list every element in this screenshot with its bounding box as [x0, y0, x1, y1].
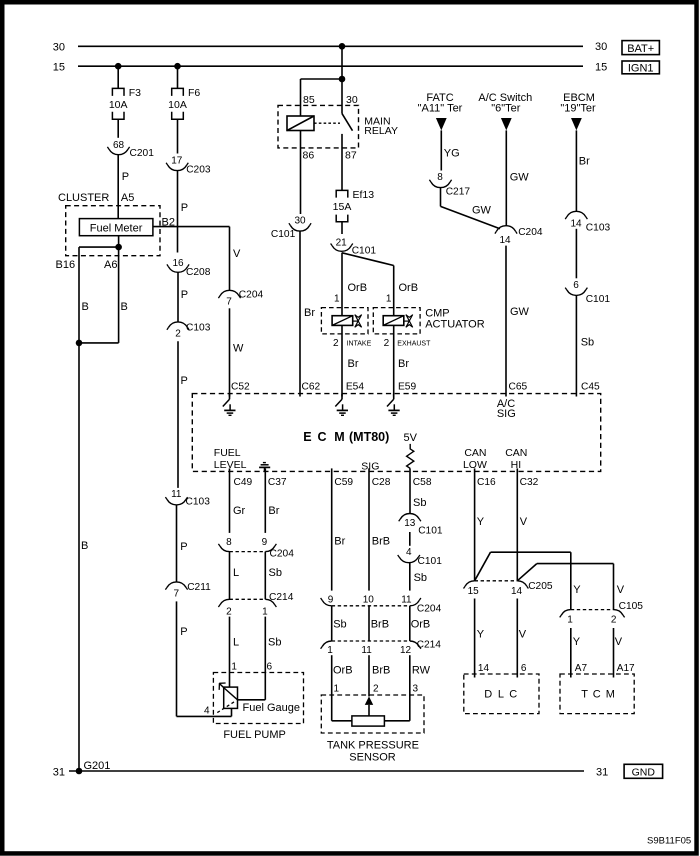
svg-text:CAN: CAN [464, 447, 486, 459]
svg-text:CLUSTER: CLUSTER [58, 192, 109, 204]
svg-text:D L C: D L C [484, 689, 518, 701]
svg-text:C214: C214 [269, 592, 294, 603]
svg-text:8: 8 [226, 537, 232, 548]
svg-text:30: 30 [294, 215, 306, 226]
svg-text:15: 15 [53, 62, 65, 74]
svg-text:GW: GW [510, 171, 530, 183]
svg-text:2: 2 [226, 606, 232, 617]
svg-text:(MT80): (MT80) [349, 430, 389, 444]
svg-text:C205: C205 [528, 581, 553, 592]
svg-text:"6"Ter: "6"Ter [491, 103, 521, 115]
svg-text:C105: C105 [619, 601, 644, 612]
svg-text:2: 2 [611, 615, 617, 626]
svg-text:9: 9 [328, 595, 334, 606]
svg-text:SENSOR: SENSOR [349, 751, 396, 763]
svg-text:7: 7 [174, 589, 180, 600]
svg-text:E54: E54 [346, 382, 364, 393]
svg-text:Br: Br [398, 358, 409, 370]
svg-text:F3: F3 [129, 87, 141, 99]
svg-text:15: 15 [595, 61, 607, 73]
svg-text:Sb: Sb [581, 337, 594, 349]
svg-text:15: 15 [468, 586, 480, 597]
svg-text:86: 86 [303, 150, 315, 162]
svg-text:P: P [181, 202, 188, 214]
svg-text:Br: Br [304, 307, 315, 319]
svg-text:W: W [233, 343, 244, 355]
svg-text:OrB: OrB [399, 282, 419, 294]
svg-text:V: V [520, 516, 528, 528]
svg-text:P: P [181, 289, 188, 301]
svg-text:P: P [181, 375, 188, 387]
svg-text:Y: Y [573, 584, 581, 596]
svg-text:INTAKE: INTAKE [347, 340, 372, 347]
svg-text:EXHAUST: EXHAUST [397, 340, 431, 347]
svg-text:9: 9 [262, 537, 268, 548]
svg-text:C204: C204 [270, 549, 295, 560]
svg-text:6: 6 [521, 663, 527, 674]
svg-text:16: 16 [172, 258, 184, 269]
svg-text:C62: C62 [302, 382, 321, 393]
svg-text:E59: E59 [398, 382, 416, 393]
svg-text:Br: Br [334, 536, 345, 548]
svg-text:11: 11 [171, 489, 182, 500]
svg-text:21: 21 [336, 237, 348, 248]
svg-text:SIG: SIG [497, 408, 516, 420]
svg-text:CAN: CAN [505, 447, 527, 459]
svg-text:C: C [318, 430, 327, 444]
svg-text:14: 14 [511, 586, 523, 597]
svg-text:10A: 10A [168, 99, 187, 111]
svg-text:6: 6 [573, 280, 579, 291]
svg-text:31: 31 [53, 766, 65, 778]
svg-text:1: 1 [567, 615, 573, 626]
svg-text:Sb: Sb [414, 572, 427, 584]
svg-text:30: 30 [595, 41, 607, 53]
svg-text:C101: C101 [352, 246, 377, 257]
svg-text:Fuel Gauge: Fuel Gauge [243, 702, 300, 714]
svg-text:4: 4 [406, 547, 412, 558]
svg-text:Sb: Sb [413, 497, 426, 509]
svg-text:30: 30 [53, 42, 65, 54]
svg-text:Y: Y [477, 629, 485, 641]
svg-text:6: 6 [267, 662, 273, 673]
svg-text:FUEL: FUEL [214, 447, 241, 459]
svg-text:GW: GW [510, 306, 530, 318]
svg-text:68: 68 [113, 140, 125, 151]
svg-text:C208: C208 [186, 267, 211, 278]
svg-text:2: 2 [384, 338, 390, 349]
svg-text:C204: C204 [518, 227, 543, 238]
svg-text:17: 17 [171, 156, 183, 167]
svg-text:RELAY: RELAY [364, 125, 398, 137]
svg-text:14: 14 [499, 235, 511, 246]
svg-text:2: 2 [175, 329, 181, 340]
svg-text:C32: C32 [520, 477, 539, 488]
svg-text:L: L [233, 637, 239, 649]
svg-text:C201: C201 [130, 148, 155, 159]
svg-text:GW: GW [472, 205, 492, 217]
svg-text:C49: C49 [234, 477, 253, 488]
svg-text:FUEL PUMP: FUEL PUMP [223, 729, 286, 741]
svg-text:B: B [81, 540, 88, 552]
svg-text:BrB: BrB [372, 536, 390, 548]
svg-text:8: 8 [437, 172, 443, 183]
svg-text:YG: YG [444, 148, 460, 160]
svg-text:A7: A7 [575, 663, 588, 674]
svg-text:Fuel Meter: Fuel Meter [90, 223, 143, 235]
svg-text:T C M: T C M [581, 689, 616, 701]
svg-text:7: 7 [226, 297, 232, 308]
svg-text:Y: Y [477, 516, 485, 528]
svg-text:C45: C45 [581, 382, 600, 393]
svg-text:4: 4 [204, 706, 210, 717]
svg-text:Br: Br [348, 358, 359, 370]
svg-text:A5: A5 [121, 192, 134, 204]
svg-text:L: L [233, 567, 239, 579]
svg-text:P: P [180, 626, 187, 638]
svg-text:Sb: Sb [269, 567, 282, 579]
svg-text:B: B [121, 301, 128, 313]
svg-text:C101: C101 [586, 294, 611, 305]
svg-text:C103: C103 [186, 496, 211, 507]
svg-text:C65: C65 [509, 382, 528, 393]
svg-text:Br: Br [579, 156, 590, 168]
svg-text:12: 12 [400, 645, 412, 656]
svg-text:SIG: SIG [361, 461, 379, 473]
svg-text:11: 11 [361, 645, 372, 656]
svg-text:BrB: BrB [371, 619, 389, 631]
svg-text:1: 1 [231, 662, 237, 673]
svg-text:5V: 5V [404, 432, 418, 444]
svg-text:OrB: OrB [333, 665, 353, 677]
svg-text:Br: Br [268, 505, 279, 517]
svg-text:S9B11F05: S9B11F05 [647, 836, 691, 847]
svg-text:Y: Y [573, 636, 581, 648]
svg-text:G201: G201 [84, 760, 111, 772]
svg-text:V: V [519, 629, 527, 641]
svg-text:2: 2 [373, 684, 379, 695]
svg-text:E: E [303, 430, 311, 444]
svg-text:10: 10 [363, 595, 375, 606]
svg-text:C101: C101 [418, 526, 443, 537]
svg-text:RW: RW [412, 665, 431, 677]
svg-text:C203: C203 [186, 164, 211, 175]
svg-text:M: M [334, 430, 344, 444]
svg-text:C16: C16 [477, 477, 496, 488]
svg-text:B: B [82, 301, 89, 313]
svg-text:11: 11 [401, 595, 412, 606]
svg-text:IGN1: IGN1 [628, 63, 654, 75]
svg-text:GND: GND [632, 766, 656, 778]
svg-text:V: V [615, 636, 623, 648]
svg-text:C103: C103 [586, 223, 611, 234]
svg-text:1: 1 [334, 294, 340, 305]
svg-text:F6: F6 [188, 87, 200, 99]
svg-text:ACTUATOR: ACTUATOR [425, 318, 485, 330]
svg-text:1: 1 [327, 645, 333, 656]
svg-text:C28: C28 [372, 477, 391, 488]
svg-text:C37: C37 [268, 477, 287, 488]
svg-text:OrB: OrB [348, 282, 368, 294]
svg-text:P: P [122, 171, 129, 183]
svg-text:13: 13 [404, 518, 416, 529]
svg-text:C101: C101 [418, 556, 443, 567]
svg-text:C214: C214 [417, 640, 442, 651]
svg-text:C59: C59 [334, 477, 353, 488]
svg-text:B2: B2 [162, 216, 175, 228]
svg-text:V: V [617, 584, 625, 596]
svg-text:C103: C103 [186, 323, 211, 334]
svg-text:HI: HI [511, 459, 522, 471]
svg-text:TANK PRESSURE: TANK PRESSURE [327, 739, 419, 751]
svg-text:C52: C52 [231, 382, 250, 393]
svg-text:P: P [180, 541, 187, 553]
svg-text:C217: C217 [446, 187, 471, 198]
svg-text:31: 31 [596, 766, 608, 778]
svg-text:C211: C211 [187, 582, 211, 593]
svg-text:Sb: Sb [268, 637, 281, 649]
svg-text:Sb: Sb [333, 619, 346, 631]
svg-text:"A11" Ter: "A11" Ter [418, 103, 463, 115]
svg-text:Gr: Gr [233, 505, 246, 517]
svg-text:Ef13: Ef13 [353, 189, 375, 201]
svg-text:14: 14 [478, 663, 490, 674]
svg-text:C58: C58 [413, 477, 432, 488]
svg-text:A6: A6 [104, 259, 117, 271]
svg-text:1: 1 [262, 606, 268, 617]
svg-text:30: 30 [346, 94, 358, 106]
svg-text:1: 1 [386, 294, 392, 305]
svg-text:C101: C101 [271, 229, 296, 240]
svg-text:BAT+: BAT+ [627, 43, 654, 55]
svg-text:BrB: BrB [372, 665, 390, 677]
svg-text:1: 1 [334, 684, 340, 695]
svg-text:2: 2 [333, 338, 339, 349]
svg-text:85: 85 [303, 94, 315, 106]
svg-text:C204: C204 [417, 604, 442, 615]
svg-text:"19"Ter: "19"Ter [560, 103, 596, 115]
svg-text:OrB: OrB [411, 619, 431, 631]
svg-text:15A: 15A [333, 201, 352, 213]
svg-text:3: 3 [413, 684, 419, 695]
svg-text:A17: A17 [617, 663, 635, 674]
svg-text:B16: B16 [56, 259, 76, 271]
svg-text:14: 14 [570, 219, 582, 230]
svg-text:C204: C204 [239, 289, 264, 300]
svg-text:V: V [233, 248, 241, 260]
svg-text:10A: 10A [109, 99, 128, 111]
svg-text:87: 87 [345, 150, 357, 162]
